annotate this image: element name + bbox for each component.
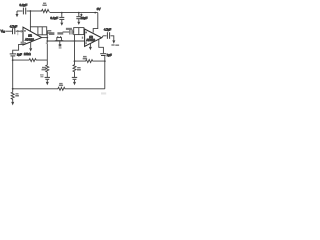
wire U2 output <box>102 36 107 38</box>
wire <box>16 30 24 32</box>
label left of jack <box>49 32 63 35</box>
wire (right feedback down) <box>99 39 104 53</box>
headphone jack plug <box>54 36 64 41</box>
wire (inverting input jog) <box>13 44 24 53</box>
wire (right spine down) <box>104 56 106 89</box>
value label R3 <box>47 30 51 34</box>
wire U1 output <box>42 37 48 39</box>
wire (right input spine) <box>74 35 76 62</box>
pin 2 <box>21 42 22 44</box>
ground (mid decoupling) <box>60 23 63 26</box>
capacitor C6 (left chain) <box>45 77 50 82</box>
pin 3 <box>21 30 22 32</box>
capacitor C7 (right input coupling) <box>70 30 72 35</box>
label below jack <box>59 47 62 48</box>
resistor R9 10k (bias divider lower) <box>11 89 14 102</box>
svg-text:4.7µF: 4.7µF <box>10 25 18 29</box>
jack sleeve stub <box>59 41 62 47</box>
ground (bias divider) <box>11 102 14 106</box>
svg-text:AD822: AD822 <box>86 38 95 42</box>
svg-text:0.1µF: 0.1µF <box>50 16 58 20</box>
resistor R5 box (right input box) <box>74 28 84 35</box>
pin 5 <box>82 37 83 39</box>
ground (bulk decoupling) <box>77 22 80 25</box>
wire + resistor R8 10k (bias rail) <box>13 87 105 90</box>
value label R7 <box>77 67 81 71</box>
value label C7 <box>66 28 72 30</box>
value label R4 <box>42 67 47 71</box>
capacitor C9 1uF (right feedback) <box>100 54 106 56</box>
svg-text:0.1µF: 0.1µF <box>20 3 28 7</box>
op-amp U2 (1/2 AD822) <box>85 29 102 46</box>
node <box>12 88 14 90</box>
resistor R4 10k (left chain vertical) <box>46 60 49 77</box>
wire + resistor R6 10k (right feedback) <box>75 60 105 63</box>
value label R6 <box>83 56 87 59</box>
minus mark <box>85 42 87 43</box>
svg-text:3V: 3V <box>97 7 101 11</box>
node <box>94 12 96 14</box>
svg-text:1µF: 1µF <box>107 53 112 57</box>
wire V+ pin of U2 <box>93 13 98 33</box>
wire (left output spine) <box>46 31 48 60</box>
ground (output) <box>112 40 115 43</box>
svg-text:10µF: 10µF <box>81 16 88 20</box>
node <box>17 30 19 32</box>
wire <box>5 30 12 32</box>
minus mark <box>24 42 26 43</box>
node <box>46 40 48 42</box>
node <box>61 12 63 14</box>
ground (left chain) <box>46 82 49 85</box>
capacitor C5 1uF (left gain network) <box>10 54 16 56</box>
capacitor C4 4.7uF (input coupling) <box>13 28 15 34</box>
ground (U2 V- pin) <box>89 43 92 50</box>
value label R1 <box>42 3 46 6</box>
wire (headphone jack line) <box>47 40 84 42</box>
wire <box>17 10 23 12</box>
wire (right channel input) <box>63 31 70 33</box>
wire box to node <box>46 30 49 32</box>
plus mark <box>24 30 26 32</box>
wire V+ pin of U1 <box>29 11 31 31</box>
wire <box>111 36 114 41</box>
node <box>78 12 80 14</box>
capacitor C8 4.7uF (output coupling) <box>107 32 109 39</box>
node <box>74 40 76 42</box>
svg-text:4.7µF: 4.7µF <box>104 27 111 31</box>
node <box>74 60 76 62</box>
op-amp U1 (1/2 AD822) <box>23 27 42 45</box>
wire <box>72 31 75 33</box>
wire <box>27 10 41 12</box>
ground (right chain) <box>73 82 76 85</box>
wire (top rail) <box>50 12 98 14</box>
svg-text:1µF: 1µF <box>17 52 22 56</box>
wire (faint bias stub) <box>17 31 19 35</box>
value label R8 <box>59 83 63 86</box>
ground (top-left supply ground) <box>16 11 19 17</box>
value label R9 <box>15 93 19 96</box>
svg-text:AD822: AD822 <box>25 38 34 42</box>
node <box>12 59 14 61</box>
wire to R box <box>30 26 38 28</box>
capacitor C10 (right chain) <box>72 77 77 82</box>
value label C6 <box>40 74 44 77</box>
capacitor C1 0.1uF (top-left decoupling) <box>23 8 25 15</box>
svg-text:VIN: VIN <box>1 29 6 33</box>
capacitor C2 0.1uF (mid decoupling) <box>59 13 64 23</box>
wire (left spine down to bias rail) <box>12 56 14 89</box>
svg-text:10kΩ: 10kΩ <box>24 52 32 56</box>
resistor R1 (top rail series) <box>41 9 50 12</box>
node <box>46 37 48 39</box>
plus mark <box>85 32 87 34</box>
capacitor C3 10uF (bulk decoupling) <box>76 13 81 22</box>
node V+ junction <box>30 10 32 12</box>
resistor R3 box (left feedback box) <box>38 27 47 35</box>
wire + resistor R2 10k (left feedback) <box>13 59 48 62</box>
ground (U1 V- pin) <box>29 42 32 52</box>
label VOUT <box>111 44 119 46</box>
resistor R7 10k (right chain vertical) <box>73 61 76 77</box>
node <box>104 60 106 62</box>
